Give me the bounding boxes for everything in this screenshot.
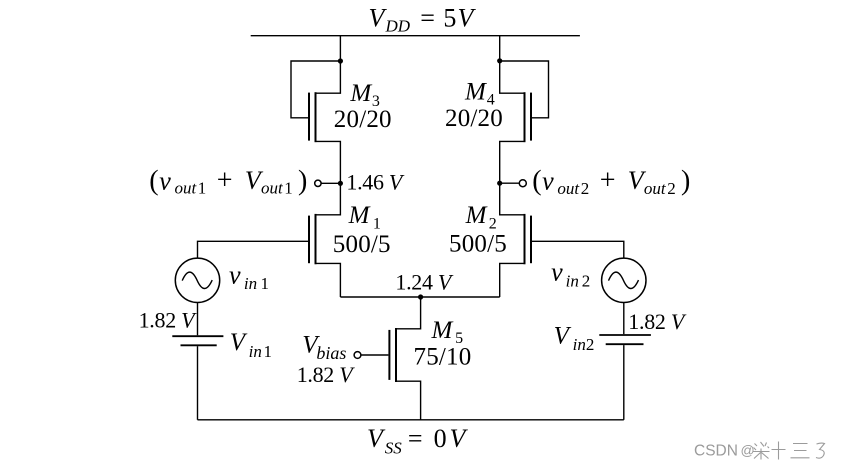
wire output node 2 to M2 drain [500, 183, 524, 215]
svg-text:1.24 V: 1.24 V [395, 269, 454, 294]
node output1 terminal circle [315, 180, 321, 186]
node Vbias terminal circle [354, 352, 361, 359]
tail rail wire [340, 296, 499, 298]
wire battery Vin1 to VSS rail [197, 346, 199, 420]
wire Vbias terminal to M5 gate [361, 354, 389, 356]
battery Vin2 long plate [599, 334, 651, 336]
transistor M1 gate bar [308, 216, 310, 264]
svg-text:M2: M2 [465, 202, 497, 232]
wire M2 gate to vin2 [532, 241, 624, 258]
wire VDD to M3 drain [317, 36, 341, 93]
source vin2 circle [602, 258, 646, 302]
sine symbol vin1 [182, 272, 212, 288]
battery Vin2 short plate [606, 343, 644, 345]
svg-text:500/5: 500/5 [449, 231, 507, 258]
svg-text:M5: M5 [431, 317, 464, 347]
source vin1 circle [175, 258, 219, 302]
svg-text:vin2: vin2 [551, 258, 590, 291]
watermark hanzi shi [772, 442, 786, 460]
wire vin2 to battery Vin2 [623, 303, 625, 335]
watermark hanzi liang [753, 442, 770, 460]
wire output1 terminal to node [321, 182, 340, 184]
junction dot output node 1 [338, 181, 343, 186]
transistor M1 channel bar [315, 214, 317, 264]
wire M2 source to tail [500, 263, 524, 297]
battery Vin1 long plate [172, 335, 223, 337]
wire output node 1 to M1 drain [317, 183, 341, 215]
svg-text:(vout2+Vout2): (vout2+Vout2) [532, 165, 690, 198]
wire M3 source down to output node 1 [317, 141, 341, 183]
sine symbol vin2 [609, 272, 639, 288]
junction dot output node 2 [497, 181, 502, 186]
VSS rail [198, 419, 624, 421]
svg-text:Vin2: Vin2 [554, 322, 595, 354]
wire M4 gate loop to drain node [500, 61, 549, 118]
svg-text:(vout1+Vout1): (vout1+Vout1) [149, 165, 307, 198]
battery Vin1 short plate [181, 344, 217, 346]
wire output2 node to terminal [500, 182, 520, 184]
svg-text:CSDN: CSDN [694, 442, 738, 459]
node output2 terminal circle [519, 180, 526, 187]
svg-text:1.46 V: 1.46 V [346, 169, 405, 194]
VDD rail [251, 35, 580, 37]
svg-text:75/10: 75/10 [414, 344, 472, 371]
wire M4 source down to output node 2 [500, 141, 524, 183]
wire M1 source to tail [317, 263, 341, 297]
svg-text:1.82 V: 1.82 V [297, 362, 356, 387]
wire VDD to M4 drain [500, 36, 524, 93]
wire M1 gate to vin1 [198, 241, 309, 258]
transistor M2 channel bar [524, 214, 526, 264]
transistor M5 gate bar [388, 330, 390, 380]
wire M5 source to VSS rail [397, 381, 421, 420]
svg-text:@: @ [741, 442, 755, 458]
transistor M3 gate bar [308, 93, 310, 141]
junction dot M3 gate-drain [338, 58, 343, 63]
transistor M4 channel bar [524, 92, 526, 142]
junction dot M4 gate-drain [497, 58, 502, 63]
svg-text:VDD=5V: VDD=5V [369, 4, 477, 36]
wire vin1 to battery Vin1 [197, 303, 199, 336]
svg-text:Vbias: Vbias [302, 331, 346, 362]
wire battery Vin2 to VSS rail [623, 345, 625, 420]
svg-text:500/5: 500/5 [333, 231, 391, 258]
transistor M2 gate bar [530, 216, 532, 264]
svg-text:VSS=0V: VSS=0V [367, 424, 469, 458]
svg-text:20/20: 20/20 [445, 105, 503, 132]
transistor M4 gate bar [530, 93, 532, 141]
svg-text:1.82 V: 1.82 V [628, 309, 687, 334]
svg-text:M1: M1 [348, 202, 381, 232]
transistor M3 channel bar [315, 92, 317, 142]
wire tail node to M5 drain [397, 297, 421, 329]
svg-text:vin1: vin1 [229, 261, 269, 294]
junction dot tail node [418, 294, 423, 299]
svg-text:20/20: 20/20 [334, 106, 392, 133]
wire M3 gate loop to drain node [291, 61, 340, 118]
transistor M5 channel bar [395, 328, 397, 382]
svg-text:1.82 V: 1.82 V [139, 308, 198, 333]
watermark squiggle [816, 443, 825, 458]
watermark hanzi san [791, 444, 810, 458]
svg-text:Vin1: Vin1 [230, 329, 272, 361]
